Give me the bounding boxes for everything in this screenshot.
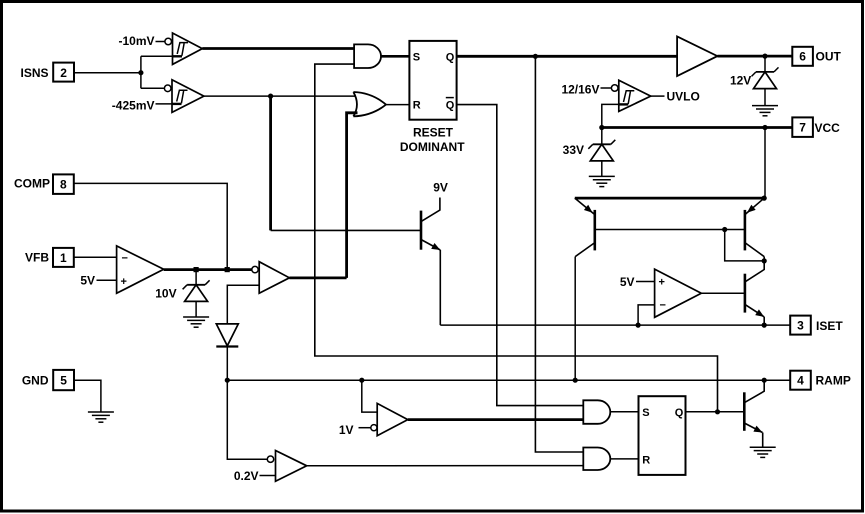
node ISET emitter junction <box>762 323 767 328</box>
wire AND A1 lower input from bottom latch Q (long loop) <box>315 64 718 412</box>
svg-text:−: − <box>122 253 128 265</box>
ground 12V zener <box>752 106 778 116</box>
wire OR O1 lower input from inverter output (thick) <box>347 113 358 278</box>
label -425mV <box>112 99 172 113</box>
ground discharge transistor <box>750 447 776 457</box>
svg-text:12V: 12V <box>730 74 751 88</box>
label 12/16V <box>561 82 611 96</box>
comparator U7 0.2V <box>267 451 306 482</box>
pin VFB 1 <box>25 248 74 267</box>
wire UVLO output <box>651 95 665 97</box>
wire RAMP line <box>227 379 790 381</box>
wire left PNP collector down to RAMP <box>574 257 576 381</box>
node RAMP charge junction <box>573 378 578 383</box>
wire COMP to error amp output <box>74 183 227 269</box>
OR gate O1 <box>353 92 386 116</box>
svg-text:10V: 10V <box>155 286 176 300</box>
node ISET feedback tap <box>636 323 641 328</box>
svg-text:VCC: VCC <box>815 121 841 135</box>
node -425mV output branch <box>268 94 273 99</box>
ground 10V zener <box>183 317 209 327</box>
node RAMP discharge junction <box>762 378 767 383</box>
AND gate A2 <box>583 400 610 424</box>
wire ISNS to comparators <box>74 56 173 88</box>
node UVLO/33V tap <box>599 125 604 130</box>
node RAMP 1V tap <box>359 378 364 383</box>
svg-text:OUT: OUT <box>816 50 842 64</box>
svg-text:7: 7 <box>799 121 806 135</box>
transistor Q5 ramp discharge NPN <box>744 380 764 447</box>
pin GND 5 <box>22 370 74 390</box>
svg-text:UVLO: UVLO <box>667 89 700 103</box>
svg-text:Q: Q <box>446 100 455 112</box>
wire latch U8 Q to discharge transistor base <box>686 411 745 413</box>
node VCC down branch <box>762 125 767 130</box>
comparator -425mV <box>164 80 204 113</box>
wire U3 inverting input feedback <box>638 305 655 325</box>
wire -425mV comparator output to OR <box>204 95 356 97</box>
svg-text:+: + <box>659 277 665 289</box>
pin RAMP 4 <box>790 371 851 390</box>
svg-text:5V: 5V <box>620 275 635 289</box>
ground 33V zener <box>589 176 615 186</box>
SR latch U8 (ramp) <box>639 396 686 475</box>
wire UVLO lower input to VCC line <box>602 104 619 127</box>
label 12V <box>730 74 751 88</box>
svg-text:RAMP: RAMP <box>816 374 851 388</box>
svg-text:5V: 5V <box>80 274 95 288</box>
wire U3 output to Q3 base <box>701 292 745 294</box>
pin OUT 6 <box>792 47 841 66</box>
ground GND pin <box>88 412 114 422</box>
node 10V zener tap <box>194 267 199 272</box>
node base rail tap <box>722 227 727 232</box>
label UVLO <box>667 89 700 103</box>
wire buffer output to OUT (thick) <box>717 55 792 58</box>
pin COMP 8 <box>14 174 74 194</box>
label 5V (error amp) <box>80 274 116 288</box>
transistor Q3 ISET NPN <box>745 261 764 325</box>
label -10mV <box>118 34 164 48</box>
svg-text:-425mV: -425mV <box>112 99 155 113</box>
svg-text:RESET: RESET <box>413 126 454 140</box>
wire U5 output to OR gate (thick) <box>289 276 346 279</box>
zener 33V <box>588 128 615 177</box>
zener 10V <box>183 270 210 317</box>
wire VFB to error amp <box>74 256 117 258</box>
wire error amp output (thick) <box>164 268 252 271</box>
wire U5 lower input to ramp diode <box>227 285 259 324</box>
wire -425mV output down to 9V transistor base (thick vertical) <box>271 96 421 230</box>
svg-text:−: − <box>660 299 666 311</box>
node collector tie junction <box>762 258 767 263</box>
wire 1V comparator output to AND A2 (thick) <box>408 418 584 421</box>
label 9V <box>433 180 448 194</box>
wire OR O1 output to latch R <box>386 104 409 106</box>
AND gate A1 <box>354 44 381 68</box>
svg-text:DOMINANT: DOMINANT <box>400 140 465 154</box>
svg-text:6: 6 <box>799 50 806 64</box>
svg-text:ISET: ISET <box>816 319 843 333</box>
comparator U6 1V <box>371 403 408 435</box>
wire mirror base rail <box>595 229 745 231</box>
label 10V <box>155 286 176 300</box>
svg-text:4: 4 <box>797 374 804 388</box>
svg-text:0.2V: 0.2V <box>234 469 259 483</box>
svg-text:-10mV: -10mV <box>118 34 154 48</box>
wire Q down to bottom AND gate <box>535 56 583 452</box>
wire AND A3 output to latch R <box>610 458 638 460</box>
node RAMP/diode junction <box>225 378 230 383</box>
AND gate A3 <box>583 448 610 471</box>
pin ISNS 2 <box>20 63 74 82</box>
wire AND A1 output to latch S (thick) <box>381 55 409 58</box>
wire latch Q output to buffer (thick) <box>457 55 677 58</box>
comparator -10mV <box>165 33 202 64</box>
label 0.2V <box>234 469 276 483</box>
wire VCC down to mirror rail <box>764 128 766 199</box>
svg-text:2: 2 <box>60 66 67 80</box>
wire -10mV comparator output to AND (thick) <box>202 47 354 50</box>
svg-text:ISNS: ISNS <box>20 66 48 80</box>
svg-text:S: S <box>413 51 420 63</box>
svg-text:VFB: VFB <box>25 251 49 265</box>
svg-text:+: + <box>121 276 127 288</box>
zener 12V <box>752 56 779 106</box>
node ISNS junction <box>138 70 143 75</box>
svg-text:Q: Q <box>675 407 684 419</box>
node OUT branch <box>762 54 767 59</box>
svg-text:33V: 33V <box>563 143 584 157</box>
wire AND A2 output to latch S <box>610 411 638 413</box>
wire ISET line <box>440 324 790 326</box>
transistor Q1 left PNP <box>575 198 595 257</box>
node Q base junction <box>715 409 720 414</box>
label 1V <box>339 423 371 437</box>
label 33V <box>563 143 584 157</box>
op-amp U4 error amplifier <box>117 246 164 293</box>
wire VCC line (thick) <box>602 126 793 129</box>
wire GND pin to ground <box>74 380 101 412</box>
svg-text:1V: 1V <box>339 423 354 437</box>
svg-text:8: 8 <box>60 178 67 192</box>
svg-text:Q: Q <box>446 51 455 63</box>
pin VCC 7 <box>792 117 840 136</box>
transistor Q2 right PNP (diode connected) <box>745 198 764 262</box>
label 5V (ISET op-amp) <box>620 275 655 289</box>
svg-text:3: 3 <box>797 319 804 333</box>
svg-text:COMP: COMP <box>14 177 50 191</box>
svg-text:S: S <box>642 407 649 419</box>
wire latch Qbar to bottom AND gate <box>457 105 584 406</box>
label RESET DOMINANT <box>400 126 465 154</box>
diode D1 <box>216 324 238 347</box>
svg-text:12/16V: 12/16V <box>561 82 599 96</box>
comparator U5 PWM (inverting input bubble) <box>252 262 290 294</box>
svg-text:GND: GND <box>22 374 49 388</box>
wire diode to RAMP line and 0.2V comparator <box>227 347 267 460</box>
wire base to collector tie <box>725 230 765 261</box>
svg-text:R: R <box>413 100 421 112</box>
wire RAMP to 1V comparator input <box>362 380 377 412</box>
comparator UVLO <box>611 80 650 111</box>
buffer U2 output driver <box>677 36 717 76</box>
node Q branch <box>533 54 538 59</box>
wire mirror emitter rail (thick) <box>575 197 764 200</box>
node COMP tap <box>225 267 230 272</box>
node rail right junction <box>762 196 767 201</box>
svg-text:5: 5 <box>60 374 67 388</box>
svg-text:9V: 9V <box>433 180 448 194</box>
svg-text:1: 1 <box>60 251 67 265</box>
pin ISET 3 <box>790 316 843 335</box>
transistor Q4 9V clamp NPN <box>421 198 440 326</box>
op-amp U3 ISET <box>655 269 702 317</box>
wire 0.2V comparator output to AND A3 <box>307 465 584 467</box>
SR latch U1 (reset dominant) <box>409 41 456 120</box>
svg-text:R: R <box>642 454 650 466</box>
